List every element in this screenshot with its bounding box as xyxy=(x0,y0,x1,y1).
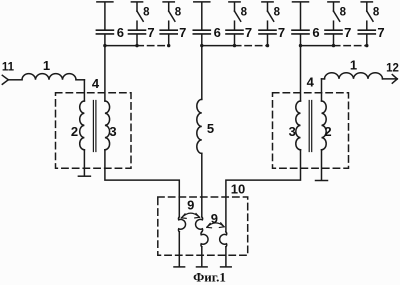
wire coil 2 to ground (left) xyxy=(83,150,85,176)
switch 8 (C2): stub xyxy=(267,3,269,12)
capacitor C6 right column: top bar xyxy=(293,1,309,3)
ground bar box10 middle xyxy=(197,266,208,268)
svg-text:8: 8 xyxy=(241,6,248,18)
capacitor C7 (R1): bottom stub xyxy=(333,35,335,46)
wire node to coil 3 (right) xyxy=(300,46,302,101)
svg-text:6: 6 xyxy=(117,25,124,40)
svg-text:7: 7 xyxy=(278,25,285,40)
switch 8 (L2): blade xyxy=(169,11,175,21)
ground bar left box xyxy=(78,175,90,177)
switch 8 (R2): stub xyxy=(366,3,368,12)
terminal 11 arrow xyxy=(2,75,8,84)
switch 8 (L1): blade xyxy=(137,11,143,21)
svg-text:4: 4 xyxy=(92,76,100,91)
variometer coil 9b left winding (bump on middle line) xyxy=(201,232,208,247)
capacitor C7 (C2): upper stub xyxy=(267,21,269,29)
switch 8 (R2): blade xyxy=(367,11,373,21)
capacitor C7 (L1): bottom stub xyxy=(136,35,138,46)
wire corner down to coil 2 (right) xyxy=(321,79,323,101)
capacitor C6 right: bottom stub xyxy=(300,35,302,46)
switch 8 (C1): stub xyxy=(234,3,236,12)
coil 2 (left box) xyxy=(80,101,85,150)
svg-text:4: 4 xyxy=(307,75,315,90)
coupling arrow 9a xyxy=(182,213,200,218)
switch 8 (C1): blade xyxy=(235,11,241,21)
capacitor C7 (C1): upper stub xyxy=(234,21,236,29)
capacitor C7 (L2): upper stub xyxy=(168,21,170,29)
variometer coil 9a left winding (bump on left line) xyxy=(178,217,185,232)
switch 8 (R1): top bar xyxy=(328,1,339,3)
svg-text:2: 2 xyxy=(71,124,78,139)
inductor 1 (left) xyxy=(22,74,76,80)
node line left group solid xyxy=(105,45,137,47)
capacitor C6 center plates xyxy=(193,30,210,34)
junction dots center group xyxy=(200,44,203,47)
wire corner down to coil 2 xyxy=(83,80,85,101)
wire coil 2 to ground (right) xyxy=(321,150,323,180)
wire input left xyxy=(8,79,22,81)
wire corner to inductor (right) xyxy=(322,78,325,80)
junction dots left group xyxy=(103,44,106,47)
svg-text:3: 3 xyxy=(109,124,116,139)
variometer coil 9a right winding (bump on middle line) xyxy=(196,217,203,232)
svg-text:7: 7 xyxy=(344,25,351,40)
wire node to coil 5 xyxy=(201,46,203,100)
inductor 1 (right) xyxy=(325,73,383,79)
capacitor C7 (L1) plates xyxy=(129,30,146,34)
svg-text:2: 2 xyxy=(324,124,331,139)
capacitor C6 right plates xyxy=(292,30,309,34)
switch 8 (R1): blade xyxy=(334,11,340,21)
dashed box variometer 10 xyxy=(158,197,248,255)
node line center group dashed xyxy=(235,45,268,47)
capacitor C7 (L1): upper stub xyxy=(136,21,138,29)
switch 8 (L2): stub xyxy=(168,3,170,12)
capacitor C6 left column: top bar xyxy=(97,1,113,3)
capacitor C7 (R2): bottom stub xyxy=(366,35,368,46)
wire middle line to ground (box 10) xyxy=(201,247,203,266)
capacitor C6 left: bottom stub xyxy=(104,35,106,46)
capacitor C7 (C1): bottom stub xyxy=(234,35,236,46)
svg-text:3: 3 xyxy=(289,124,296,139)
coil 2 (right box) xyxy=(322,101,327,150)
svg-text:8: 8 xyxy=(143,6,150,18)
svg-text:8: 8 xyxy=(274,6,281,18)
switch 8 (L2): top bar xyxy=(163,1,174,3)
svg-text:12: 12 xyxy=(386,62,399,74)
node line right group dashed xyxy=(334,45,367,47)
wire inductor to terminal 12 xyxy=(383,78,398,80)
capacitor C7 (R1): upper stub xyxy=(333,21,335,29)
transformer core (left box) xyxy=(93,101,96,152)
capacitor C7 (C2) plates xyxy=(259,30,276,34)
capacitor C7 (L2): bottom stub xyxy=(168,35,170,46)
wire coil 3 down and left to box 10 xyxy=(226,150,301,232)
svg-text:1: 1 xyxy=(43,58,50,73)
svg-text:6: 6 xyxy=(214,25,221,40)
center column: capacitor C6 center top bar xyxy=(194,1,210,3)
dashed box transformer left xyxy=(56,93,132,169)
capacitor C6 center: bottom stub xyxy=(201,35,203,46)
svg-text:1: 1 xyxy=(350,58,357,73)
wire coil 5 down to variometer xyxy=(201,153,203,216)
switch 8 (C1): top bar xyxy=(229,1,240,3)
svg-text:6: 6 xyxy=(312,25,319,40)
ground bar box10 left xyxy=(174,266,185,268)
capacitor C7 (C2): bottom stub xyxy=(267,35,269,46)
switch 8 (C2): blade xyxy=(268,11,274,21)
wire coil 3 down and right to box 10 xyxy=(105,150,179,217)
wire right line to ground (box 10) xyxy=(225,247,227,266)
node line left group dashed xyxy=(137,45,169,47)
svg-text:9: 9 xyxy=(187,197,194,212)
capacitor C7 (R2) plates xyxy=(358,30,375,34)
svg-text:11: 11 xyxy=(2,61,15,73)
ground bar box10 right xyxy=(221,266,232,268)
svg-text:10: 10 xyxy=(231,181,245,196)
svg-text:8: 8 xyxy=(373,6,380,18)
capacitor C7 (L2) plates xyxy=(160,30,177,34)
svg-text:7: 7 xyxy=(179,25,186,40)
svg-text:Фиг.1: Фиг.1 xyxy=(193,270,226,285)
coil 3 (right box) xyxy=(296,101,301,150)
switch 8 (R2): top bar xyxy=(361,1,372,3)
capacitor C7 (R2): upper stub xyxy=(366,21,368,29)
svg-text:7: 7 xyxy=(147,25,154,40)
capacitor C6 left: top stub xyxy=(104,3,106,30)
svg-text:8: 8 xyxy=(340,6,347,18)
switch 8 (R1): stub xyxy=(333,3,335,12)
junction dots right group xyxy=(299,44,302,47)
capacitor C6 right: top stub xyxy=(300,3,302,30)
switch 8 (L1): top bar xyxy=(131,1,142,3)
ground bar right box xyxy=(316,180,328,182)
svg-text:7: 7 xyxy=(377,25,384,40)
transformer core (right box) xyxy=(309,101,312,152)
switch 8 (L1): stub xyxy=(136,3,138,12)
capacitor C7 (C1) plates xyxy=(226,30,243,34)
switch 8 (C2): top bar xyxy=(262,1,273,3)
node line center group solid xyxy=(202,45,235,47)
node line right group solid xyxy=(301,45,334,47)
svg-text:7: 7 xyxy=(245,25,252,40)
dashed box transformer right xyxy=(273,93,349,169)
coil 5 xyxy=(197,99,202,153)
wire inductor1 to corner xyxy=(76,79,84,81)
capacitor C6 left plates xyxy=(96,30,113,34)
wire left line to ground (box 10) xyxy=(178,232,180,266)
capacitor C7 (R1) plates xyxy=(325,30,342,34)
coupling arrow 9b xyxy=(207,223,224,227)
capacitor C6 center: top stub xyxy=(201,3,203,30)
svg-text:5: 5 xyxy=(207,121,214,136)
terminal 12 arrow xyxy=(392,75,397,84)
variometer coil 9b right winding (bump on right line) xyxy=(220,232,227,247)
wire node to coil 3 (left) xyxy=(104,46,106,101)
svg-text:8: 8 xyxy=(175,6,182,18)
svg-text:9: 9 xyxy=(211,211,218,226)
coil 3 (left box) xyxy=(105,101,110,150)
